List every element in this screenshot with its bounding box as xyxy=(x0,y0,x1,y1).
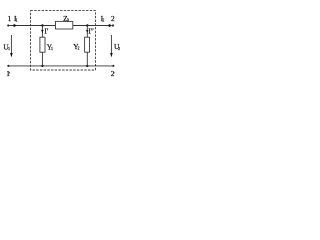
svg-text:1: 1 xyxy=(8,14,12,23)
voltage arrow U2 xyxy=(110,35,120,57)
terminal 1 xyxy=(7,24,9,26)
admittance Y1 (left shunt box) xyxy=(40,26,53,66)
wire bottom (terminal 1' to terminal 2') xyxy=(10,65,113,67)
branch current arrow I'' xyxy=(86,30,88,33)
svg-text:2: 2 xyxy=(111,14,115,23)
node B' junction dot bottom-right xyxy=(86,65,88,67)
svg-text:I′: I′ xyxy=(44,26,48,35)
terminal 2' xyxy=(112,65,114,67)
node A' junction dot bottom-left xyxy=(41,65,43,67)
svg-text:Z3: Z3 xyxy=(63,14,69,23)
node A junction dot top-left xyxy=(41,24,43,26)
svg-text:2': 2' xyxy=(111,69,115,78)
svg-text:U1: U1 xyxy=(3,42,10,51)
current arrow I2 xyxy=(109,24,112,27)
two-port network dashed box xyxy=(31,11,96,70)
svg-text:Y1: Y1 xyxy=(47,42,53,51)
admittance Y2 (right shunt box) xyxy=(73,26,89,66)
terminal 1' xyxy=(7,65,9,67)
terminal 2 xyxy=(112,24,114,26)
svg-text:1': 1' xyxy=(6,69,10,78)
svg-text:U2: U2 xyxy=(114,42,120,51)
voltage arrow U1 xyxy=(3,35,12,57)
current arrow I1 xyxy=(14,24,17,27)
svg-text:I2: I2 xyxy=(101,14,105,23)
branch current arrow I' xyxy=(41,30,43,33)
impedance Z3 (series box) xyxy=(56,14,73,29)
svg-text:I1: I1 xyxy=(14,14,18,23)
wire top-left (terminal 1 to Z box) xyxy=(9,25,55,27)
node B junction dot top-right xyxy=(86,24,88,26)
wire top-right (Z box to terminal 2) xyxy=(73,25,112,27)
svg-text:Y2: Y2 xyxy=(73,42,79,51)
svg-text:I″: I″ xyxy=(88,26,94,35)
